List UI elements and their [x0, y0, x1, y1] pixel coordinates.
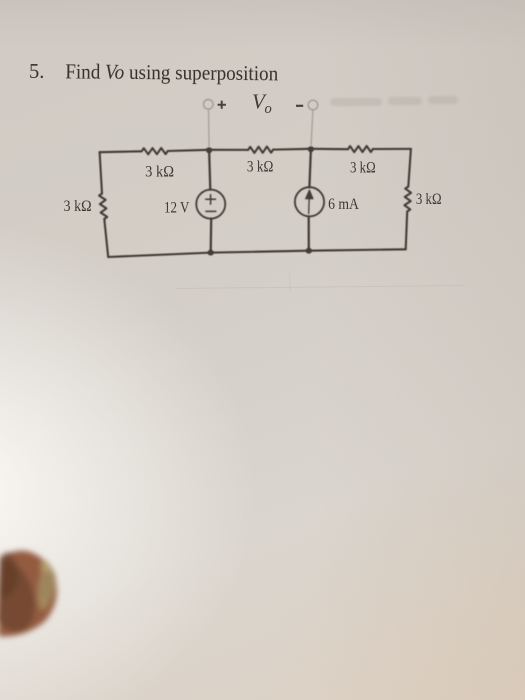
- svg-text:3 kΩ: 3 kΩ: [247, 159, 273, 176]
- wire left edge lower: [104, 219, 108, 257]
- svg-text:3 kΩ: 3 kΩ: [416, 191, 442, 208]
- label Vo plus sign: [218, 101, 304, 109]
- resistor R1 3k (top-left): [142, 148, 168, 154]
- wire V1 top lead: [209, 150, 210, 190]
- title: problem statement text: [29, 59, 279, 85]
- faint bleed-through smudge text top right: [330, 96, 458, 106]
- faint bleed-through line lower: [176, 273, 465, 292]
- wire rail R1 to node A: [168, 150, 209, 151]
- wire rail node B to R3: [311, 148, 348, 150]
- terminal + lead wire (left, light): [204, 100, 214, 148]
- wire rail node A to R2: [209, 149, 248, 151]
- svg-text:3 kΩ: 3 kΩ: [145, 163, 174, 180]
- wire bottom rail: [108, 249, 406, 257]
- I1 arrow shaft: [308, 197, 311, 214]
- node D junction dot (bottom of I1): [306, 248, 312, 254]
- resistor R4 3k (left vertical): [99, 194, 107, 220]
- svg-text:3 kΩ: 3 kΩ: [350, 160, 376, 177]
- I1 arrow head: [305, 190, 313, 199]
- V1 plus symbol: [206, 195, 216, 205]
- wire rail R2 to node B: [273, 148, 311, 151]
- wire left edge upper: [100, 152, 102, 193]
- terminal + lead wire (right, light): [308, 100, 318, 146]
- resistor R2 3k (top-middle): [248, 147, 273, 153]
- wire V1 bottom lead: [210, 219, 213, 253]
- resistor R5 3k (right vertical): [404, 187, 411, 212]
- node B junction dot: [308, 146, 314, 152]
- voltage source V1 12V circle: [196, 190, 225, 219]
- svg-text:12 V: 12 V: [164, 199, 190, 216]
- node A junction dot: [206, 147, 212, 153]
- V1 minus symbol: [206, 210, 216, 212]
- wire right edge lower: [406, 212, 408, 249]
- resistor R3 3k (top-right): [348, 146, 373, 152]
- wire I1 bottom lead: [308, 216, 310, 250]
- label Vo text: [252, 90, 272, 118]
- wire I1 top lead: [309, 149, 311, 188]
- svg-text:o: o: [265, 101, 272, 117]
- svg-text:Find Vo using superposition: Find Vo using superposition: [65, 59, 278, 85]
- wire right edge upper: [408, 149, 411, 187]
- current source I1 6mA circle: [295, 187, 324, 216]
- wire rail R3 to top-right corner: [373, 148, 411, 150]
- svg-text:6 mA: 6 mA: [328, 196, 359, 213]
- svg-text:3 kΩ: 3 kΩ: [64, 198, 92, 215]
- svg-text:5.: 5.: [29, 59, 45, 83]
- node C junction dot (bottom of V1): [208, 250, 214, 256]
- wire top rail left segment: [100, 150, 142, 153]
